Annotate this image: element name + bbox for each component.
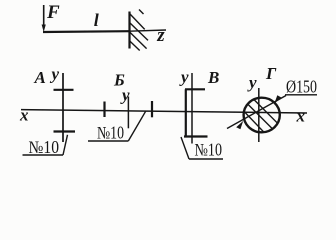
svg-text:F: F (46, 2, 60, 23)
svg-text:Ø150: Ø150 (286, 77, 317, 97)
svg-text:В: В (207, 68, 219, 87)
svg-text:y: y (120, 86, 130, 105)
svg-text:Г: Г (265, 64, 277, 83)
svg-text:А: А (34, 68, 46, 87)
svg-text:x: x (296, 107, 306, 126)
svg-text:z: z (156, 25, 165, 46)
svg-text:y: y (179, 68, 189, 87)
svg-text:x: x (19, 106, 29, 125)
svg-text:y: y (247, 73, 257, 92)
svg-text:№10: №10 (195, 140, 223, 160)
svg-text:y: y (50, 65, 60, 84)
svg-text:№10: №10 (29, 137, 60, 157)
svg-text:№10: №10 (97, 122, 124, 142)
svg-text:l: l (94, 10, 99, 30)
